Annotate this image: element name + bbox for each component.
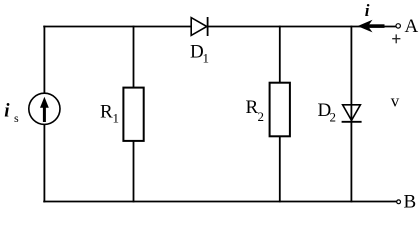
svg-text:v: v [391,92,400,111]
terminal A (open circle) [396,24,400,28]
svg-text:R: R [100,102,113,123]
label i_s [4,100,19,125]
svg-text:B: B [404,192,417,210]
wire R2 branch lower [279,136,281,202]
label R2 [246,97,265,124]
wire R2 branch upper [279,26,281,83]
current arrow i (bold, pointing left into node) [358,20,385,33]
wire left vertical lower [43,124,45,203]
svg-text:2: 2 [330,110,337,125]
svg-text:i: i [4,100,10,121]
label i [365,1,370,20]
wire D2 branch lower [350,122,352,203]
wire bottom horizontal (node B net) [43,201,397,203]
label D2 [318,100,337,125]
wire left vertical upper [43,26,45,95]
svg-text:A: A [405,16,419,37]
label R1 [100,102,119,126]
plus sign (+) [392,34,400,43]
wire top-right horizontal (D1 cathode to terminal A) [208,26,397,28]
terminal B (open circle) [397,200,401,204]
label v [391,92,400,111]
wire D2 branch upper [350,26,352,122]
current source i_s (circle with up arrow) [29,93,60,124]
svg-text:s: s [14,111,19,125]
diode D2 (pointing down) [342,105,362,122]
label A [405,16,419,37]
label B [404,192,417,213]
resistor R2 (box) [270,83,290,137]
svg-text:2: 2 [258,109,265,124]
resistor R1 (box) [123,88,143,141]
svg-text:1: 1 [203,51,210,66]
label D1 [190,42,209,66]
diode D1 (series in top wire, pointing right) [191,17,207,36]
svg-text:1: 1 [113,111,120,126]
svg-text:i: i [365,1,370,20]
wire R1 branch lower [133,141,135,203]
wire top-left horizontal (node A net, left of D1) [43,26,191,28]
wire R1 branch upper [133,26,135,88]
